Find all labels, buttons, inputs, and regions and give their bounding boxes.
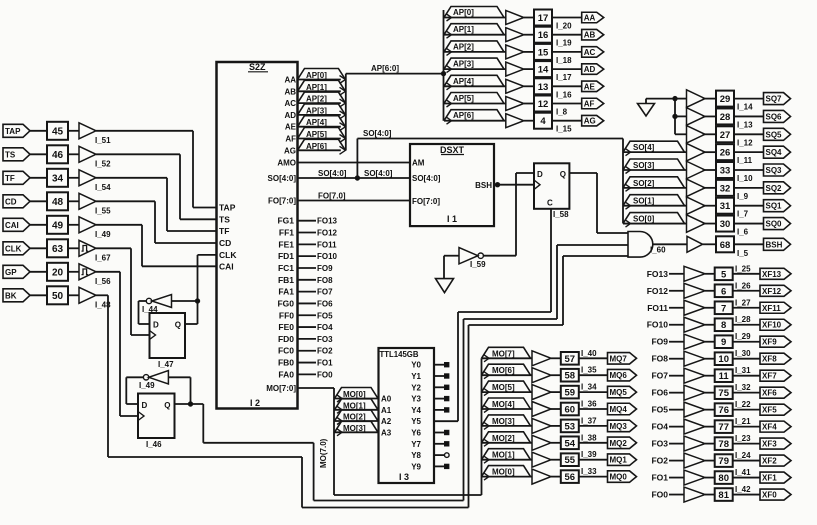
svg-text:I_52: I_52 [95, 159, 111, 168]
svg-text:SO[4:0]: SO[4:0] [363, 129, 392, 138]
svg-text:I_27: I_27 [735, 298, 751, 307]
svg-text:I_24: I_24 [735, 451, 751, 460]
svg-text:I_36: I_36 [581, 400, 597, 409]
svg-text:77: 77 [718, 422, 729, 433]
svg-text:I_5: I_5 [737, 249, 749, 258]
svg-text:FA1: FA1 [278, 287, 294, 297]
svg-text:SQ7: SQ7 [766, 95, 783, 104]
svg-text:AP[4]: AP[4] [453, 77, 474, 86]
svg-text:I_7: I_7 [737, 210, 749, 219]
svg-text:AF: AF [285, 135, 296, 144]
svg-text:XF2: XF2 [762, 457, 777, 466]
svg-text:AP[6]: AP[6] [306, 142, 327, 151]
svg-text:I_14: I_14 [737, 103, 753, 112]
svg-text:SO[1]: SO[1] [633, 197, 655, 206]
svg-text:AG: AG [284, 146, 296, 155]
svg-text:59: 59 [565, 388, 576, 399]
svg-text:Y5: Y5 [411, 417, 421, 426]
svg-text:FO10: FO10 [317, 252, 338, 261]
svg-text:I_29: I_29 [735, 332, 751, 341]
svg-text:A2: A2 [381, 417, 392, 426]
svg-text:75: 75 [718, 388, 729, 399]
svg-text:SQ0: SQ0 [766, 220, 783, 229]
svg-text:FC0: FC0 [278, 346, 294, 356]
svg-text:17: 17 [538, 13, 549, 24]
svg-text:CAI: CAI [219, 261, 234, 271]
svg-text:Y7: Y7 [411, 440, 421, 449]
svg-text:I_46: I_46 [146, 440, 162, 449]
svg-text:Y3: Y3 [411, 395, 421, 404]
svg-text:S2Z: S2Z [249, 62, 266, 72]
svg-text:AP[6]: AP[6] [453, 111, 474, 120]
svg-text:SQ4: SQ4 [766, 148, 783, 157]
svg-text:AP[1]: AP[1] [306, 83, 327, 92]
svg-text:I_37: I_37 [581, 416, 597, 425]
svg-text:80: 80 [718, 473, 729, 484]
svg-text:A1: A1 [381, 406, 392, 415]
svg-text:Y2: Y2 [411, 383, 421, 392]
svg-text:68: 68 [720, 240, 731, 251]
svg-text:54: 54 [565, 438, 576, 449]
svg-text:FO10: FO10 [647, 320, 669, 330]
svg-text:8: 8 [721, 320, 726, 331]
svg-text:I 3: I 3 [399, 472, 409, 482]
svg-text:Q: Q [560, 170, 566, 179]
svg-text:TS: TS [5, 150, 16, 159]
svg-text:63: 63 [52, 244, 64, 255]
svg-text:31: 31 [720, 201, 731, 212]
svg-text:81: 81 [718, 490, 729, 501]
svg-text:SO[4]: SO[4] [633, 143, 655, 152]
svg-text:DSXT: DSXT [440, 145, 465, 155]
svg-text:MO[3]: MO[3] [343, 424, 366, 433]
svg-text:FO[7.0]: FO[7.0] [318, 192, 346, 201]
svg-text:FD1: FD1 [278, 251, 294, 261]
svg-text:FO0: FO0 [317, 370, 333, 379]
svg-text:FO0: FO0 [651, 490, 668, 500]
svg-text:I_10: I_10 [737, 174, 753, 183]
svg-text:AG: AG [584, 117, 596, 126]
svg-text:27: 27 [720, 130, 731, 141]
svg-text:I_39: I_39 [581, 450, 597, 459]
svg-text:Q: Q [164, 401, 170, 410]
svg-text:MQ5: MQ5 [610, 388, 628, 397]
svg-text:76: 76 [718, 405, 729, 416]
svg-text:29: 29 [720, 94, 731, 105]
svg-text:Y0: Y0 [411, 361, 421, 370]
svg-text:I_31: I_31 [735, 366, 751, 375]
svg-text:BSH: BSH [475, 181, 492, 190]
svg-text:I_58: I_58 [553, 210, 569, 219]
svg-text:AM: AM [412, 159, 425, 168]
svg-text:CD: CD [5, 197, 17, 206]
svg-text:FO9: FO9 [317, 264, 333, 273]
svg-text:79: 79 [718, 456, 729, 467]
svg-text:5: 5 [721, 269, 727, 280]
svg-text:I_23: I_23 [735, 434, 751, 443]
svg-text:SO[4:0]: SO[4:0] [412, 174, 441, 183]
svg-text:XF7: XF7 [762, 372, 777, 381]
svg-text:Y6: Y6 [411, 429, 421, 438]
svg-text:I_25: I_25 [735, 264, 751, 273]
svg-text:FO8: FO8 [651, 354, 668, 364]
svg-text:AP[6:0]: AP[6:0] [371, 64, 399, 73]
svg-text:FO8: FO8 [317, 276, 333, 285]
svg-text:SO[3]: SO[3] [633, 161, 655, 170]
svg-text:AD: AD [584, 65, 596, 74]
svg-text:7: 7 [721, 303, 726, 314]
svg-text:CLK: CLK [219, 250, 237, 260]
svg-text:MO[1]: MO[1] [492, 451, 515, 460]
svg-text:FO[7:0]: FO[7:0] [412, 197, 440, 206]
svg-text:I_67: I_67 [95, 253, 111, 262]
svg-text:I_33: I_33 [581, 467, 597, 476]
svg-text:XF8: XF8 [762, 355, 777, 364]
svg-text:I_20: I_20 [556, 22, 572, 31]
svg-text:I_12: I_12 [737, 138, 753, 147]
svg-text:FO12: FO12 [647, 286, 669, 296]
svg-text:CAI: CAI [5, 221, 19, 230]
svg-text:I_41: I_41 [735, 468, 751, 477]
svg-text:FO9: FO9 [651, 337, 668, 347]
svg-text:AP[3]: AP[3] [306, 106, 327, 115]
svg-text:XF6: XF6 [762, 389, 777, 398]
svg-text:AP[4]: AP[4] [306, 118, 327, 127]
svg-text:I_6: I_6 [737, 228, 749, 237]
svg-text:AB: AB [584, 31, 596, 40]
svg-text:I_59: I_59 [470, 260, 486, 269]
svg-text:FC1: FC1 [278, 263, 294, 273]
svg-text:FG1: FG1 [277, 216, 294, 226]
svg-text:MO[2]: MO[2] [492, 434, 515, 443]
svg-text:AC: AC [284, 99, 296, 108]
svg-text:I_54: I_54 [95, 183, 111, 192]
svg-text:78: 78 [718, 439, 729, 450]
svg-text:I_15: I_15 [556, 125, 572, 134]
svg-text:11: 11 [719, 371, 730, 382]
svg-text:I_19: I_19 [556, 39, 572, 48]
svg-text:MQ6: MQ6 [610, 371, 628, 380]
svg-text:AP[1]: AP[1] [453, 25, 474, 34]
svg-text:I 1: I 1 [447, 214, 457, 224]
svg-text:AA: AA [584, 14, 596, 23]
svg-text:TTL145GB: TTL145GB [380, 350, 419, 359]
svg-text:FO2: FO2 [317, 347, 333, 356]
svg-text:I_26: I_26 [735, 281, 751, 290]
svg-text:MO[1]: MO[1] [343, 401, 366, 410]
svg-text:TAP: TAP [219, 203, 236, 213]
svg-text:46: 46 [52, 150, 64, 161]
svg-text:FA0: FA0 [278, 369, 294, 379]
svg-text:I_47: I_47 [158, 360, 174, 369]
svg-text:I_16: I_16 [556, 90, 572, 99]
svg-text:13: 13 [538, 82, 549, 93]
svg-text:55: 55 [565, 455, 576, 466]
svg-text:MQ2: MQ2 [610, 439, 628, 448]
svg-text:MO[4]: MO[4] [492, 400, 515, 409]
svg-text:AA: AA [284, 76, 296, 85]
svg-text:XF9: XF9 [762, 338, 777, 347]
svg-text:AP[5]: AP[5] [453, 94, 474, 103]
svg-text:AB: AB [284, 87, 296, 96]
svg-text:D: D [142, 401, 148, 410]
svg-text:16: 16 [538, 30, 549, 41]
svg-text:XF12: XF12 [762, 287, 782, 296]
svg-text:12: 12 [538, 99, 549, 110]
svg-text:I_49: I_49 [95, 230, 111, 239]
svg-text:FO1: FO1 [651, 473, 668, 483]
svg-text:XF13: XF13 [762, 270, 782, 279]
svg-text:15: 15 [538, 47, 549, 58]
svg-text:XF5: XF5 [762, 406, 777, 415]
svg-text:FO13: FO13 [317, 217, 338, 226]
svg-text:XF11: XF11 [762, 304, 781, 313]
svg-text:A3: A3 [381, 428, 392, 437]
svg-text:FO13: FO13 [647, 269, 669, 279]
svg-text:MQ0: MQ0 [610, 473, 628, 482]
svg-text:SQ5: SQ5 [766, 130, 783, 139]
svg-text:I_56: I_56 [95, 277, 111, 286]
svg-text:I_60: I_60 [650, 246, 666, 255]
svg-text:MO[7]: MO[7] [492, 349, 515, 358]
svg-text:C: C [547, 199, 553, 208]
svg-text:MO[7:0]: MO[7:0] [266, 384, 296, 393]
svg-text:XF1: XF1 [762, 474, 777, 483]
svg-text:SO[4:0]: SO[4:0] [364, 169, 393, 178]
svg-text:28: 28 [720, 112, 731, 123]
svg-text:I_17: I_17 [556, 73, 572, 82]
svg-text:FO4: FO4 [651, 422, 668, 432]
svg-text:SQ1: SQ1 [766, 202, 783, 211]
svg-text:33: 33 [720, 166, 731, 177]
svg-text:AP[0]: AP[0] [306, 71, 327, 80]
svg-text:57: 57 [565, 354, 576, 365]
svg-text:FB1: FB1 [278, 275, 294, 285]
svg-text:AF: AF [584, 100, 595, 109]
svg-text:MQ4: MQ4 [610, 405, 628, 414]
svg-text:I 2: I 2 [250, 398, 260, 408]
svg-text:I_32: I_32 [735, 383, 751, 392]
svg-text:FB0: FB0 [278, 358, 294, 368]
svg-text:32: 32 [720, 183, 731, 194]
svg-text:SQ2: SQ2 [766, 184, 783, 193]
svg-text:SO[4:0]: SO[4:0] [268, 174, 297, 183]
svg-text:FO5: FO5 [317, 311, 333, 320]
svg-text:MO[6]: MO[6] [492, 366, 515, 375]
svg-text:GP: GP [5, 268, 17, 277]
svg-text:FO4: FO4 [317, 323, 333, 332]
svg-text:FO[7:0]: FO[7:0] [268, 197, 296, 206]
svg-text:AE: AE [584, 82, 596, 91]
svg-text:FO1: FO1 [317, 359, 333, 368]
svg-text:I_44: I_44 [142, 305, 158, 314]
svg-text:MO[0]: MO[0] [492, 468, 515, 477]
svg-text:53: 53 [565, 421, 576, 432]
svg-text:FO5: FO5 [651, 405, 668, 415]
svg-text:I_21: I_21 [735, 417, 751, 426]
svg-text:I_30: I_30 [735, 349, 751, 358]
svg-text:34: 34 [52, 173, 64, 184]
svg-text:SO[4:0]: SO[4:0] [318, 169, 347, 178]
svg-text:SQ3: SQ3 [766, 166, 783, 175]
svg-text:58: 58 [565, 371, 576, 382]
svg-text:I_28: I_28 [735, 315, 751, 324]
svg-text:I_18: I_18 [556, 56, 572, 65]
svg-text:I_13: I_13 [737, 120, 753, 129]
svg-text:AD: AD [284, 111, 296, 120]
svg-text:10: 10 [718, 354, 729, 365]
svg-text:I_55: I_55 [95, 206, 111, 215]
svg-text:60: 60 [565, 405, 576, 416]
svg-text:BSH: BSH [766, 240, 783, 249]
svg-text:I_8: I_8 [556, 108, 568, 117]
svg-text:TS: TS [219, 214, 230, 224]
svg-text:6: 6 [721, 286, 726, 297]
svg-text:Y1: Y1 [411, 372, 421, 381]
svg-text:FO7: FO7 [317, 288, 333, 297]
svg-text:AP[2]: AP[2] [453, 42, 474, 51]
svg-text:Q: Q [175, 321, 181, 330]
svg-text:XF3: XF3 [762, 440, 777, 449]
svg-text:MO[5]: MO[5] [492, 383, 515, 392]
svg-text:FO2: FO2 [651, 456, 668, 466]
svg-text:MQ7: MQ7 [610, 354, 628, 363]
svg-text:Y8: Y8 [411, 451, 421, 460]
svg-text:30: 30 [720, 219, 731, 230]
svg-text:CLK: CLK [5, 244, 22, 253]
svg-text:48: 48 [52, 197, 64, 208]
svg-text:I_49: I_49 [139, 381, 155, 390]
svg-text:20: 20 [52, 267, 64, 278]
svg-text:AC: AC [584, 48, 596, 57]
svg-text:FO11: FO11 [647, 303, 668, 313]
svg-text:MQ1: MQ1 [610, 456, 628, 465]
svg-text:49: 49 [52, 220, 64, 231]
svg-text:Y9: Y9 [411, 462, 421, 471]
svg-text:TF: TF [219, 226, 229, 236]
svg-text:FG0: FG0 [277, 298, 294, 308]
svg-text:FE1: FE1 [278, 239, 294, 249]
svg-text:MO[2]: MO[2] [343, 413, 366, 422]
svg-text:50: 50 [52, 291, 64, 302]
svg-text:D: D [153, 321, 159, 330]
svg-text:I_42: I_42 [735, 485, 751, 494]
svg-text:TF: TF [5, 174, 15, 183]
svg-text:BK: BK [5, 291, 17, 300]
svg-text:SO[0]: SO[0] [633, 215, 655, 224]
svg-text:FF0: FF0 [279, 310, 294, 320]
svg-text:14: 14 [538, 65, 549, 76]
svg-text:AP[2]: AP[2] [306, 95, 327, 104]
svg-text:FO12: FO12 [317, 229, 338, 238]
svg-text:I_11: I_11 [737, 156, 753, 165]
svg-text:AP[5]: AP[5] [306, 130, 327, 139]
svg-text:A0: A0 [381, 395, 392, 404]
svg-text:XF10: XF10 [762, 321, 782, 330]
svg-text:I_38: I_38 [581, 433, 597, 442]
svg-text:I_34: I_34 [581, 383, 597, 392]
svg-text:Y4: Y4 [411, 406, 421, 415]
svg-text:MQ3: MQ3 [610, 422, 628, 431]
svg-text:I_22: I_22 [735, 400, 751, 409]
svg-text:SO[2]: SO[2] [633, 179, 655, 188]
svg-text:FD0: FD0 [278, 334, 294, 344]
svg-text:26: 26 [720, 148, 731, 159]
svg-text:FO7: FO7 [651, 371, 668, 381]
svg-text:I_35: I_35 [581, 366, 597, 375]
svg-text:XF0: XF0 [762, 491, 777, 500]
svg-text:MO[0]: MO[0] [343, 390, 366, 399]
svg-text:FO3: FO3 [651, 439, 668, 449]
svg-text:FO11: FO11 [317, 240, 337, 249]
svg-text:FE0: FE0 [278, 322, 294, 332]
svg-text:FO6: FO6 [317, 299, 333, 308]
svg-text:MO(7.0): MO(7.0) [319, 438, 328, 468]
svg-text:FO6: FO6 [651, 388, 668, 398]
svg-text:AMO: AMO [277, 159, 296, 168]
svg-text:I_40: I_40 [581, 349, 597, 358]
svg-text:D: D [537, 170, 543, 179]
svg-text:MO[3]: MO[3] [492, 417, 515, 426]
svg-text:AP[0]: AP[0] [453, 8, 474, 17]
svg-text:4: 4 [540, 116, 546, 127]
svg-text:FF1: FF1 [279, 228, 294, 238]
svg-text:I_9: I_9 [737, 192, 749, 201]
svg-text:56: 56 [565, 472, 576, 483]
svg-text:SQ6: SQ6 [766, 112, 783, 121]
svg-text:FO3: FO3 [317, 335, 333, 344]
svg-text:9: 9 [721, 337, 726, 348]
svg-text:45: 45 [52, 126, 64, 137]
svg-text:XF4: XF4 [762, 423, 777, 432]
svg-text:CD: CD [219, 238, 231, 248]
svg-text:I_51: I_51 [95, 136, 111, 145]
svg-text:AP[3]: AP[3] [453, 60, 474, 69]
svg-text:AE: AE [285, 123, 297, 132]
svg-text:TAP: TAP [5, 127, 21, 136]
